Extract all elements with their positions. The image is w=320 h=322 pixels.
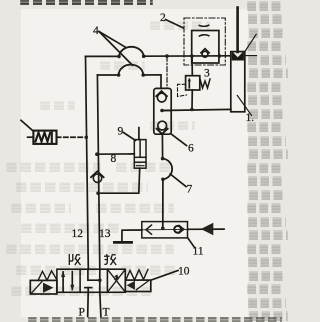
throttle valve 8/9 body: [134, 140, 146, 169]
wire: second pipe left segment (to hose 4b): [97, 74, 118, 76]
valve 10 right pilot box: [125, 280, 151, 291]
relief valve 3 pilot dashed: [178, 84, 187, 96]
valve 10 left pilot box: [30, 280, 57, 294]
faint bleed-through text column on right: [0, 0, 286, 1]
svg-text:4: 4: [93, 25, 99, 37]
cylinder 1 piston rod: [236, 8, 239, 53]
pressure switch pilot dashed line: [57, 136, 87, 138]
node: relief bottom junction: [190, 108, 194, 112]
valve 11 right seat: [179, 225, 184, 233]
stub line right of piston: [245, 55, 257, 57]
pressure switch body: [33, 131, 56, 144]
svg-text:2: 2: [160, 12, 166, 24]
wire: main upper pipe right segment to cylinder: [144, 55, 231, 57]
relief valve 3 body: [186, 76, 200, 90]
node: relief valve top connection: [190, 54, 194, 58]
directional valve 10 main body: [57, 269, 125, 292]
wire: valve 8 left port from line 13: [97, 153, 134, 155]
valve 10 left position arrows: [61, 271, 74, 291]
wire: valve 11 left port to tank: [122, 230, 142, 242]
relief valve 3 spring: [200, 79, 210, 88]
svg-text:8: 8: [111, 153, 117, 165]
valve 11 left seat arrow: [146, 225, 152, 234]
valve 10 left spring: [38, 271, 57, 281]
svg-text:9: 9: [118, 126, 124, 138]
label 9 leader: [124, 133, 136, 141]
check valve ball in coupling block: [201, 49, 209, 57]
wire: T line below valve: [100, 292, 101, 316]
diagonal line at cylinder top right: [245, 34, 256, 51]
node: junction pilot tap: [165, 54, 169, 58]
hose 4a (flexible hose, arc with end dots): [117, 47, 145, 58]
wire: valve 11 right port: [188, 228, 225, 230]
cylinder 1 body: [231, 52, 245, 112]
tank symbol: [114, 241, 131, 244]
label 收 (retract): [69, 254, 80, 265]
next text line bottom (clipped): [28, 317, 282, 322]
label 7 leader: [170, 174, 186, 187]
valve 8/9 top stub: [138, 128, 140, 140]
wire: P line below valve: [87, 292, 90, 316]
cylinder 1 piston (filled): [232, 53, 244, 61]
wire: line 13 vertical (second pipe down to valve B): [97, 75, 99, 269]
valve 10 right spring: [126, 269, 148, 280]
dash-dot enclosure box 2: [184, 18, 225, 65]
valve 10 centre position: blocked P: [85, 288, 92, 293]
svg-text:3: 3: [204, 68, 210, 80]
pressure switch left stub: [28, 136, 34, 138]
svg-text:1.: 1.: [246, 112, 255, 124]
block 6 bottom ball check: [157, 121, 168, 134]
block 6 top ball check: [156, 91, 167, 102]
valve 11 ball: [174, 226, 181, 233]
wire: hose 7 down to pilot check valve 11: [162, 179, 164, 228]
node: tap on line 13: [95, 152, 99, 156]
label 10 leader: [151, 271, 178, 281]
label 2 leader: [166, 20, 184, 29]
pilot dash-dot line from node to valve block 6: [166, 56, 168, 88]
valve 10 centre position: A bend to B: [88, 269, 102, 292]
hose 4b (flexible hose, arc with end dots): [117, 65, 145, 77]
node: return junction on line 13: [96, 191, 100, 195]
label 4 with leaders: [99, 32, 133, 66]
svg-text:6: 6: [188, 143, 194, 155]
label 放 (release): [104, 254, 116, 265]
node: coupling box right port: [218, 54, 222, 58]
wire: main upper pipe left segment (to hose 4a): [86, 55, 120, 57]
svg-text:11: 11: [193, 246, 204, 258]
pilot operated check valve 11 body: [142, 222, 188, 238]
wire: second pipe right segment with corner into valve block 6: [143, 75, 161, 89]
hose 7 (flexible hose, arc with end dots): [161, 157, 172, 181]
relief valve 3 bottom stub: [191, 90, 193, 110]
check valve on line 13: [91, 171, 104, 182]
valve 11 internal flow line: [142, 228, 187, 230]
valve 10 right position crossed arrows: [108, 270, 126, 292]
node: pilot entry inside valve 11: [161, 227, 165, 231]
label 11 leader: [188, 238, 195, 247]
quick coupling arcs: [199, 25, 209, 36]
wire: block 6 mid internal line: [162, 109, 171, 111]
svg-text:7: 7: [187, 184, 193, 196]
svg-text:13: 13: [99, 228, 111, 240]
pressure switch leader line: [21, 120, 33, 130]
node: dashed tap on line 12: [85, 136, 89, 140]
node: block 6 mid tap: [160, 109, 164, 113]
wire: valve 8 bottom return to line 13: [98, 168, 140, 193]
valve block 6 body (double check valve): [154, 88, 171, 134]
wire: line 12 vertical (upper pipe down to valve A): [86, 56, 89, 269]
svg-text:T: T: [103, 307, 110, 319]
wire: block 6 bottom to hose 7: [161, 134, 163, 158]
label 6 leader: [171, 134, 186, 145]
svg-text:12: 12: [72, 228, 84, 240]
svg-text:P: P: [79, 307, 85, 319]
wire: pipe from block 6 mid to cylinder bottom: [162, 109, 231, 110]
coupling block (inner box of 2): [192, 31, 219, 64]
relief valve 3 top stub: [191, 56, 193, 76]
label 1 leader: [237, 96, 251, 116]
figure caption top (clipped): [20, 0, 153, 5]
svg-text:10: 10: [178, 266, 190, 278]
relief valve 3 arrow: [188, 78, 191, 88]
flow arrow into valve 11: [201, 223, 214, 236]
